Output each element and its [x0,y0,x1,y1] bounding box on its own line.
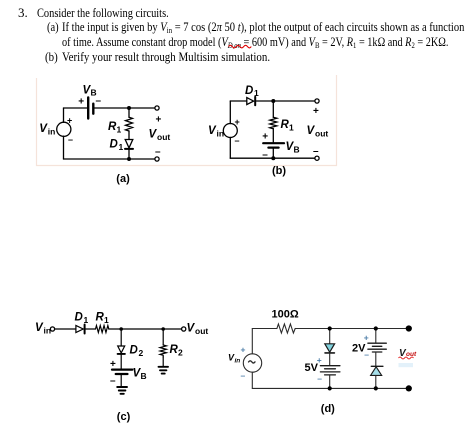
terminal: output - (b) [315,156,319,160]
svg-text:+: + [78,97,84,108]
svg-text:–: – [364,350,369,360]
svg-text:D: D [75,312,83,324]
wire [64,158,156,160]
problem statement text [18,5,28,21]
ac source Vin (d) [243,354,261,372]
svg-text:+: + [313,106,319,117]
svg-text:B: B [141,371,147,381]
diode D1 (b) [247,98,254,105]
node top of 5V branch [328,326,332,330]
wire [251,329,253,354]
resistor R1 (c) [96,326,109,333]
node: bottom junction (b) [271,156,275,160]
ground below VB (c) [117,387,127,394]
svg-text:+: + [364,333,369,343]
highlight smudge under Vout (d) [399,363,414,367]
svg-text:2: 2 [178,348,183,358]
wire [252,328,277,330]
svg-text:B: B [294,145,300,155]
wire [64,107,88,109]
svg-text:–: – [155,147,161,158]
svg-text:–: – [313,146,319,157]
svg-text:+: + [67,116,72,126]
diode (2V branch, d) [371,365,383,367]
svg-text:D: D [130,345,138,357]
svg-text:out: out [315,129,328,139]
wire [375,376,377,389]
wire [230,100,246,102]
terminal Vin (c) [50,327,54,331]
node top of 2V branch [374,326,378,330]
terminal: output + (b) [315,99,319,103]
svg-text:1: 1 [254,88,259,98]
wire [252,387,407,389]
diode D1 [125,140,133,148]
svg-text:1: 1 [117,125,122,135]
figure frame (decorative) [37,75,337,166]
svg-text:in: in [235,358,241,365]
diode D2 (c) [118,346,125,353]
wire [162,357,164,366]
svg-text:out: out [157,132,170,142]
node: top junction (b) [271,99,275,103]
wire [375,329,377,344]
svg-text:–: – [96,96,102,107]
wire [63,136,65,159]
svg-text:D: D [245,85,253,97]
wire [329,354,331,366]
terminal: output + [155,106,159,110]
wire [229,137,231,158]
wire [128,131,130,140]
wire [230,157,315,159]
wire [375,353,377,366]
svg-text:1: 1 [119,142,124,152]
node bottom of 2V branch [374,386,378,390]
svg-text:in: in [48,127,56,137]
battery 5V (d) [320,366,340,375]
wire [120,329,122,346]
node junction at R2 (c) [161,327,165,331]
resistor R1 [126,117,133,131]
resistor R2 (c) [160,345,166,357]
svg-text:+: + [317,355,322,365]
battery VB [88,98,93,119]
wire [251,372,253,388]
svg-text:+: + [241,345,246,355]
wire [109,328,182,330]
svg-text:–: – [262,150,268,161]
wire [120,355,122,369]
wire [229,101,231,124]
svg-text:(c): (c) [117,411,131,423]
wire [272,149,274,158]
svg-text:–: – [317,374,322,384]
svg-text:–: – [241,371,246,381]
wire [272,129,274,142]
wire [329,329,331,344]
terminal Vout (c) [182,327,186,331]
resistor 100ohm (d) [277,324,295,333]
diode (5V branch, d) [325,344,335,352]
ground below R2 (c) [159,367,169,374]
battery VB (c) [112,369,132,371]
svg-text:out: out [195,326,208,336]
svg-text:(b): (b) [272,165,286,177]
svg-text:(a): (a) [116,173,130,185]
svg-text:1: 1 [84,315,89,325]
squiggle under VD,on [229,45,252,48]
svg-text:–: – [110,376,116,387]
node: bottom junction [127,157,131,161]
voltage source Vin [57,122,71,136]
terminal top right (d) [406,325,412,331]
battery 2V (d) [368,343,386,352]
wire [120,375,122,386]
wire [128,150,130,159]
wire [63,108,65,122]
wire [295,328,407,330]
node: top junction [127,106,131,110]
wire [256,100,315,102]
terminal: output - [155,157,159,161]
node junction at D2 (c) [119,327,123,331]
svg-text:+: + [235,117,240,127]
svg-text:+: + [262,132,268,143]
svg-text:2: 2 [139,348,144,358]
voltage source Vin (b) [223,124,237,138]
wire [329,375,331,388]
svg-text:–: – [235,136,240,146]
wire [128,108,130,117]
svg-text:in: in [44,325,52,335]
wire [94,107,155,109]
battery VB (b) [263,143,284,147]
wire [86,328,96,330]
svg-text:+: + [156,115,162,126]
svg-text:(d): (d) [321,403,335,415]
wire [162,329,164,345]
diode D1 (c) [76,326,83,333]
svg-text:–: – [68,135,73,145]
terminal bottom right (d) [406,385,412,391]
svg-text:100Ω: 100Ω [272,309,299,321]
node bottom of 5V branch [328,386,332,390]
svg-text:1: 1 [104,315,109,325]
svg-text:+: + [110,359,116,370]
svg-text:D: D [110,138,118,150]
svg-text:1: 1 [289,123,294,133]
wire [272,101,274,117]
wire [54,328,75,330]
svg-text:in: in [217,129,225,139]
resistor R1 (b) [270,117,277,128]
squiggle under Vout (d) [399,357,414,359]
